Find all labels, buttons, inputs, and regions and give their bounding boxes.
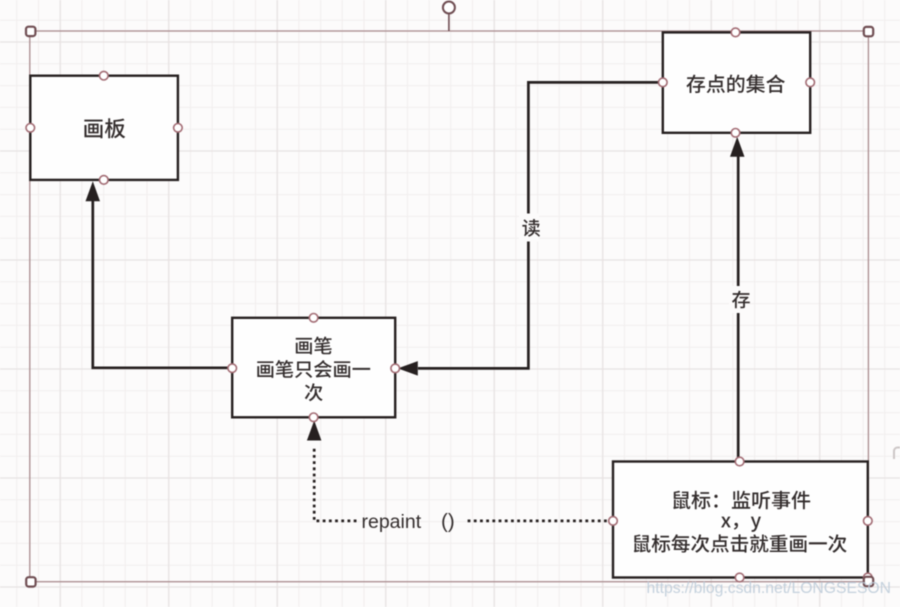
box 鼠标 (mouse events) [613,462,868,578]
connection points 存点的集合 [659,28,815,137]
text 画板 [84,118,125,138]
arrowhead into 画笔 bottom (dotted wire) [307,421,322,441]
box 画笔 (brush) [232,318,395,418]
dotted wire 鼠标→画笔 (repaint) [314,446,613,521]
frame corner handle SE [864,577,873,586]
wire 存点的集合→画笔 (elbow) [418,82,663,368]
frame corner handle SW [26,577,35,586]
frame corner handle NW [26,27,35,36]
text 画笔 / 画笔只会画一 / 次 [257,337,370,402]
arrowhead into 画板 bottom [86,181,101,201]
stray UI fragment right edge [894,448,900,460]
svg-text:repaint: repaint [362,511,422,533]
frame corner handle NE [864,27,873,36]
text 存点的集合 [686,75,784,94]
wire label 读 (read) [519,214,540,242]
svg-text:https://blog.csdn.net/LONGSESO: https://blog.csdn.net/LONGSESON [647,580,892,597]
connection points 画笔 [228,314,400,422]
svg-text:(): () [441,510,455,533]
box 存点的集合 (point set) [663,32,810,132]
text 鼠标：监听事件 / x，y / 鼠标每次点击就重画一次 [634,491,847,553]
arrowhead into 存点的集合 bottom [730,137,745,157]
rotation handle [443,2,455,32]
box 画板 (canvas) [30,76,178,180]
connection points 鼠标 [609,457,872,582]
arrowhead into 画笔 right [398,361,418,376]
connection points 画板 [26,71,182,184]
wire 画笔→画板 (elbow) [93,201,232,368]
wire 鼠标→存点的集合 (vertical) [737,157,740,461]
wire label repaint () [362,510,455,533]
wire label 存 (store) [729,286,750,313]
